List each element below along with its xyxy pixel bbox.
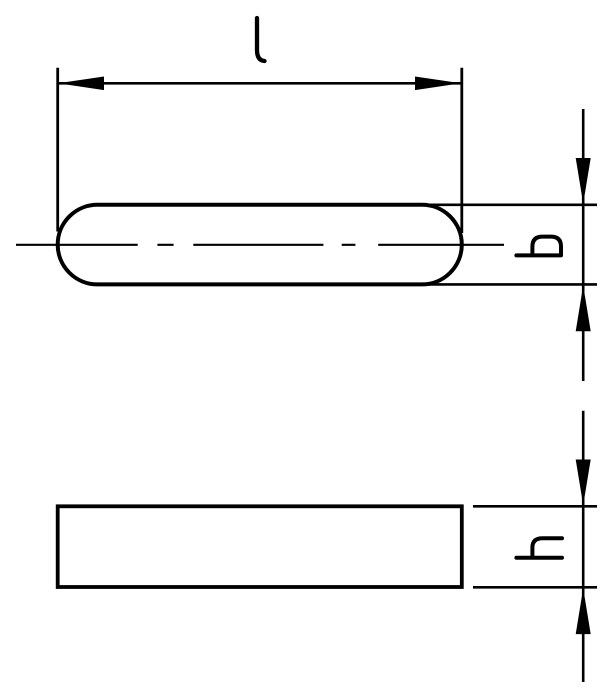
centerline (dash-dot) [16,244,504,246]
key top view (stadium outline) [58,205,462,285]
arrowhead h bottom [576,588,591,634]
label h (height, rotated) [516,538,562,557]
dimension line b [582,109,585,381]
label l (length) [257,18,265,61]
arrowhead h top [576,460,591,506]
extension line h bottom [473,586,597,589]
arrowhead l left [58,77,104,91]
label b (width, rotated) [516,237,561,256]
key side view (rectangle) [58,506,462,587]
extension line l right [460,68,463,233]
arrowhead b top [576,158,591,204]
extension line h top [473,505,597,508]
extension line b top [422,204,597,207]
dimension line l [58,82,461,85]
arrowhead l right [415,77,461,91]
dimension line h [582,411,585,682]
extension line b bottom [422,283,597,286]
arrowhead b bottom [576,285,591,331]
extension line l left [56,68,59,232]
